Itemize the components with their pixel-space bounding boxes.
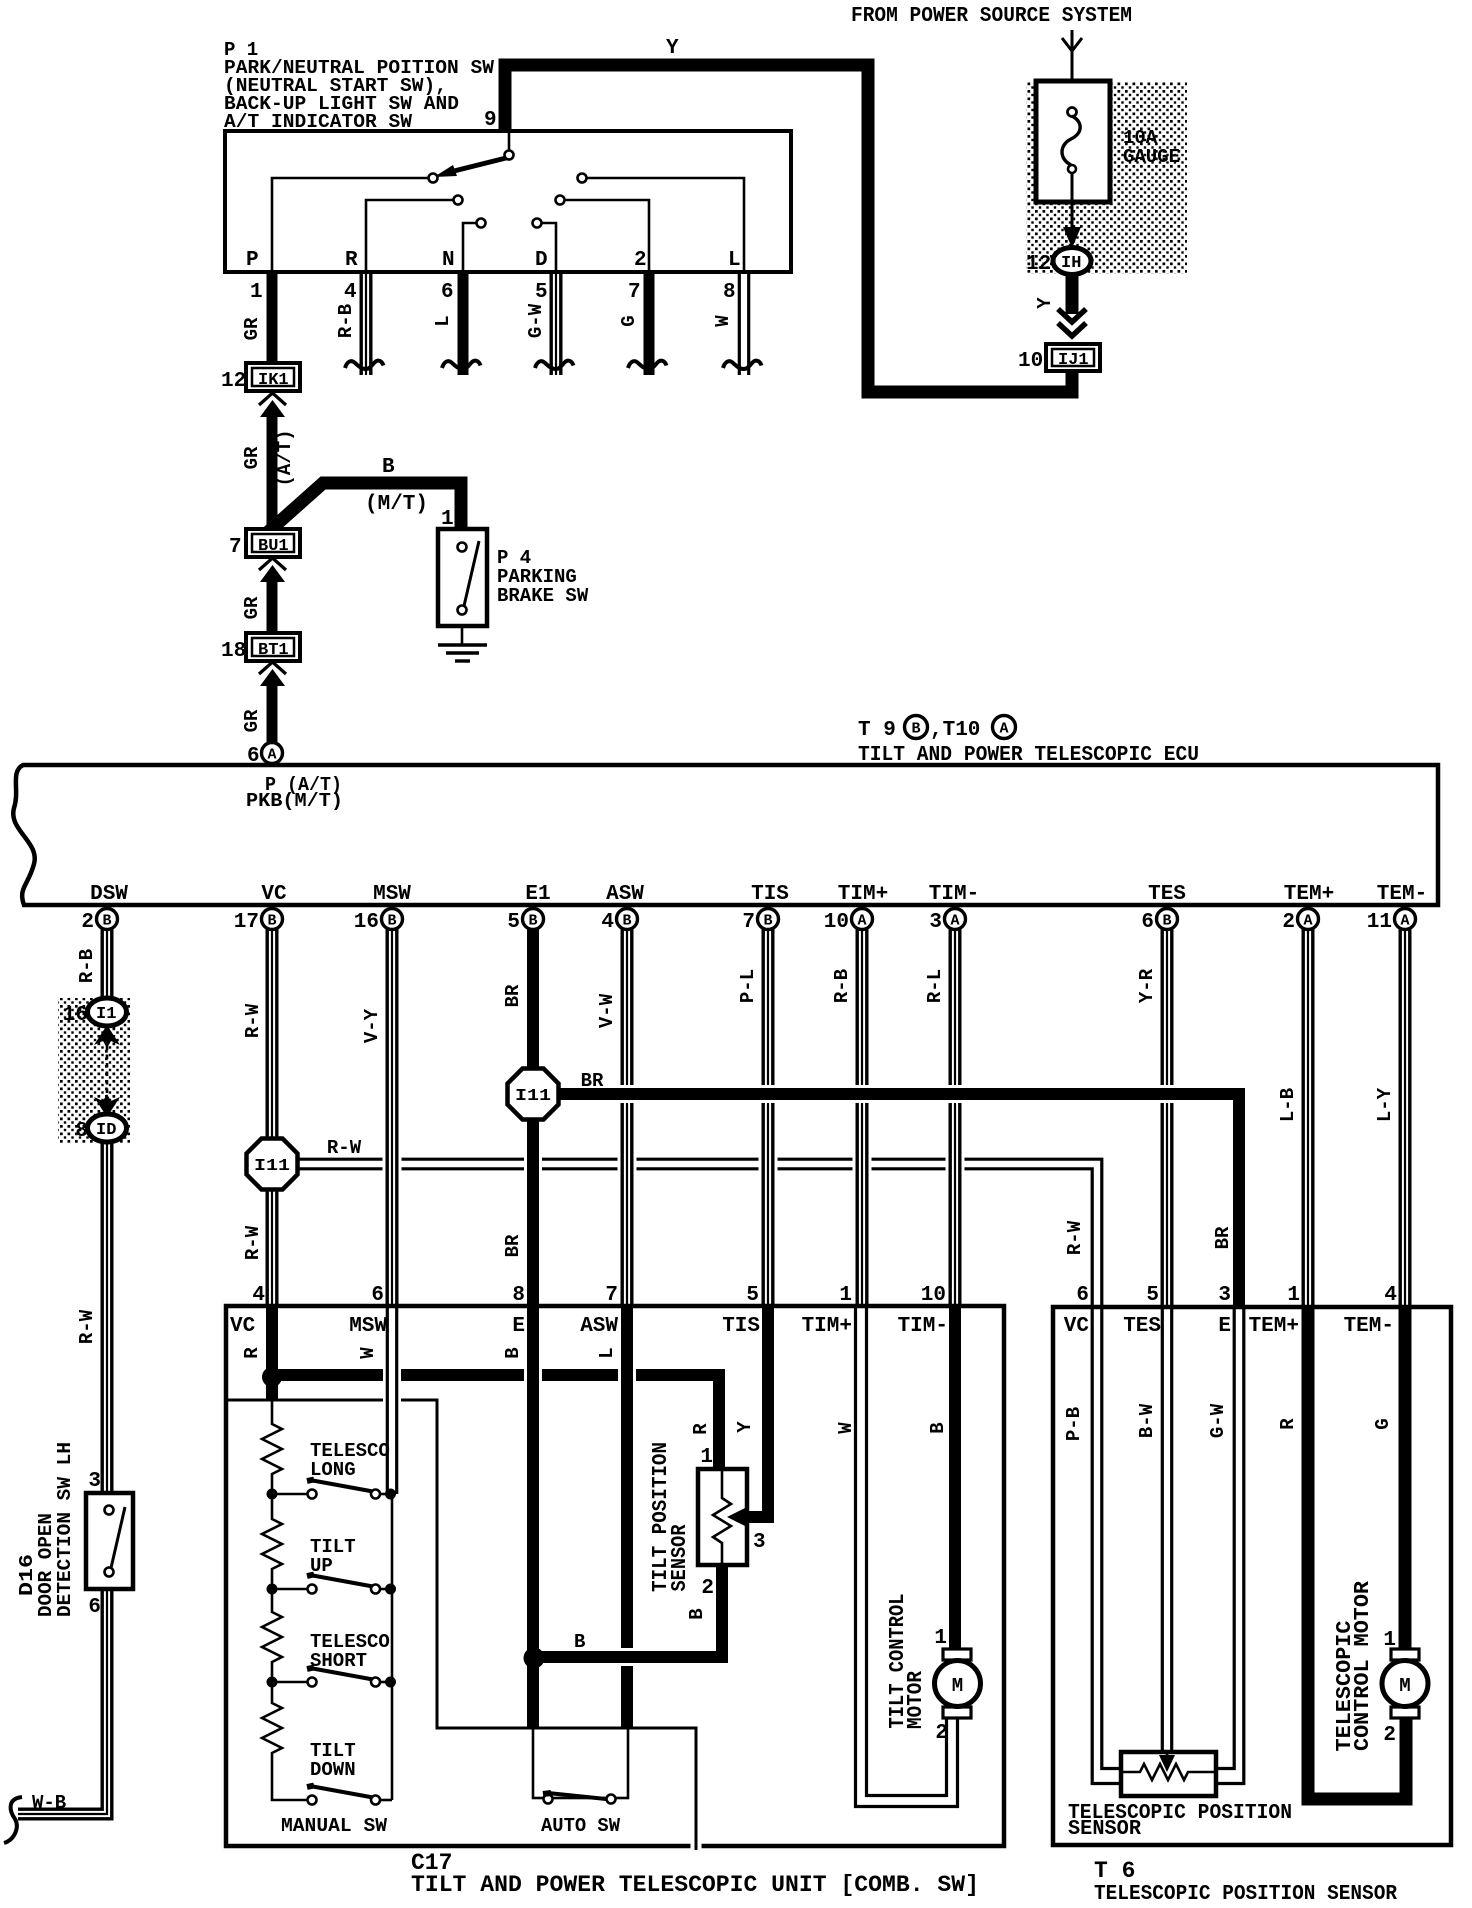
wire GR IK1 to BU1 [267,413,278,529]
P1 internal wiring [272,133,744,270]
connector ID (pin 8) [88,1114,127,1142]
svg-text:BR: BR [1212,1226,1234,1249]
harness break curl [4,1797,22,1843]
svg-text:TEM+: TEM+ [1284,883,1334,906]
svg-text:R: R [345,249,358,272]
P1 box [225,131,791,272]
svg-text:4: 4 [252,1284,265,1307]
svg-text:3: 3 [929,911,942,934]
svg-text:6: 6 [1076,1284,1089,1307]
arrow chevron under BU1 [259,558,286,570]
wire ASW V-W vertical [618,1145,637,1183]
ECU pin letters [102,913,1409,930]
svg-text:5: 5 [746,1284,759,1307]
svg-text:TIM-: TIM- [898,1315,948,1338]
wire E1 BR vertical [524,1145,542,1183]
svg-text:E: E [1218,1315,1231,1338]
wire B (E) vertical [524,1366,542,1384]
svg-text:6: 6 [1141,911,1154,934]
svg-text:B: B [686,1608,708,1619]
wire VC R-W vertical lower [267,1188,277,1306]
wire Y thick from IJ1 down, left, joining pin 9 feed [868,371,1072,392]
svg-text:G: G [618,315,640,326]
svg-text:3: 3 [88,1470,101,1493]
svg-text:10: 10 [921,1284,946,1307]
wire R (VC) inside C17 with junction to tilt position sensor pin 1 [272,1375,719,1469]
ECU box (torn left edge) [13,765,1438,905]
svg-text:R-B: R-B [76,949,98,983]
partition crossing slit [691,1840,702,1850]
svg-text:R: R [241,1347,263,1359]
svg-text:GR: GR [241,317,263,340]
svg-text:TIS: TIS [751,883,789,906]
T6 pin numbers [1076,1284,1397,1307]
svg-text:16: 16 [354,911,379,934]
wire GR BT1 to ECU pin 6 [267,682,278,742]
wire R-B pin4 (triple) [361,272,371,375]
ECU pin names [90,883,1427,906]
svg-text:6: 6 [441,281,454,304]
svg-text:I11: I11 [515,1087,551,1106]
ECU bottom pin circles [97,909,1416,930]
wire Y thick riser [505,65,875,392]
wire R (TEM+) thick loop to telescopic control motor pin 2 [1308,1306,1406,1799]
svg-text:B: B [387,913,396,930]
wire L pin6 [458,272,469,375]
resistor TILT UP ladder segment [262,1494,282,1589]
wire B-W (TES) double to sensor wiper [1162,1306,1171,1753]
svg-text:1: 1 [839,1284,852,1307]
svg-text:1: 1 [1383,1629,1396,1652]
svg-text:MSW: MSW [373,883,411,906]
wire W (MSW) hollow into switch bus [383,1310,401,1490]
motor M TELESCOPIC CONTROL MOTOR [1382,1649,1428,1718]
wire TES Y-R vertical [1162,929,1172,1306]
svg-text:SENSOR: SENSOR [669,1524,692,1591]
component TILT POSITION SENSOR (potentiometer) [698,1469,747,1565]
svg-text:GR: GR [241,446,263,469]
svg-text:BRAKE SW: BRAKE SW [497,585,589,607]
junction dot B [524,1648,545,1669]
svg-text:5: 5 [507,911,520,934]
component TELESCOPIC POSITION SENSOR (potentiometer) [1121,1752,1216,1796]
svg-text:1: 1 [934,1627,947,1650]
svg-text:TIM-: TIM- [929,883,979,906]
wire VC R-W vertical upper [267,929,277,1141]
svg-text:R: R [690,1423,712,1435]
resistor TILT DOWN ladder segment [262,1682,307,1800]
svg-text:R-W: R-W [242,1003,264,1038]
svg-text:M: M [952,1675,963,1697]
svg-text:L: L [432,315,454,326]
connector I11 (octagon, VC line) [247,1139,298,1190]
svg-text:T 6: T 6 [1094,1858,1135,1884]
svg-text:TIM+: TIM+ [802,1315,852,1338]
svg-text:6: 6 [247,745,260,768]
wire W pin8 (hollow) [739,272,748,375]
svg-text:MSW: MSW [349,1315,387,1338]
svg-text:FROM POWER SOURCE SYSTEM: FROM POWER SOURCE SYSTEM [851,5,1132,28]
svg-text:6: 6 [371,1284,384,1307]
wire R-W (hollow) from I11 to T6 VC [295,1159,1102,1306]
wire DSW R-B vertical [102,929,112,1000]
svg-text:L-Y: L-Y [1374,1087,1396,1122]
svg-text:B: B [528,913,537,930]
wire B (M/T) branch to parking brake [268,483,461,532]
connector I11 (octagon, BR line) [508,1069,559,1120]
svg-text:W: W [357,1347,379,1359]
svg-text:BR: BR [502,1234,524,1257]
connector IJ1 (pin 10) [1018,344,1100,373]
svg-text:B-W: B-W [1136,1403,1158,1438]
svg-text:2: 2 [1383,1724,1396,1747]
svg-text:Y-R: Y-R [1136,968,1158,1003]
svg-text:(A/T): (A/T) [274,429,296,486]
arrow into connector IH [1063,227,1081,248]
svg-text:8: 8 [512,1284,525,1307]
wire W (TIM+) hollow loop to tilt control motor pin 2 [856,1306,958,1807]
svg-text:UP: UP [310,1555,333,1577]
svg-text:I11: I11 [254,1157,290,1176]
svg-text:4: 4 [601,911,614,934]
wire B (TIM-) to tilt control motor pin 1 [949,1306,961,1652]
arrow chevron under IK1 [259,393,286,405]
C17 pin numbers [252,1284,946,1307]
svg-text:BR: BR [502,984,524,1007]
svg-text:PKB(M/T): PKB(M/T) [246,790,343,812]
svg-text:G-W: G-W [1207,1403,1229,1438]
svg-text:AUTO SW: AUTO SW [541,1815,621,1837]
manual switch bus [391,1494,394,1800]
svg-text:7: 7 [605,1284,618,1307]
P1 contact circles [429,174,587,228]
wire TIM+ R-B vertical [853,1145,872,1183]
svg-text:VC: VC [230,1315,256,1338]
svg-text:A: A [268,747,277,764]
svg-text:A: A [1400,913,1409,930]
svg-text:DOWN: DOWN [310,1759,356,1781]
svg-text:Y: Y [1034,297,1056,309]
svg-text:D: D [535,249,548,272]
svg-text:R-L: R-L [924,969,946,1003]
svg-text:3: 3 [1218,1284,1231,1307]
wire TEM- L-Y vertical [1400,929,1410,1306]
wire TIM- R-L vertical [946,1145,965,1183]
svg-text:VC: VC [261,883,287,906]
svg-text:LONG: LONG [310,1459,356,1481]
switch TILT UP [267,1575,397,1595]
ground symbol [438,626,487,661]
svg-text:BT1: BT1 [258,641,289,660]
svg-text:SENSOR: SENSOR [1068,1818,1141,1841]
connector 1H (pin 12) [1053,248,1091,275]
switch TELESCO SHORT [267,1668,397,1688]
wire from power source into fuse [1062,30,1082,110]
svg-text:ID: ID [96,1121,116,1140]
switch P4 PARKING BRAKE SW [438,529,487,626]
resistor TELESCO SHORT ladder segment [262,1589,282,1682]
svg-text:B: B [927,1422,949,1433]
P1 selector blade with arrow [505,151,514,160]
wire TIS P-L vertical [759,1145,778,1183]
svg-text:W-B: W-B [32,1792,66,1814]
wire TEM+ L-B vertical [1303,929,1313,1306]
svg-text:6: 6 [88,1596,101,1619]
svg-text:B: B [102,913,111,930]
svg-text:4: 4 [1384,1284,1397,1307]
switch D16 DOOR OPEN DETECTION SW LH [86,1493,133,1589]
wire L (ASW) vertical [618,1366,636,1384]
svg-text:N: N [442,249,455,272]
svg-text:4: 4 [344,281,357,304]
svg-text:,T10: ,T10 [930,719,980,742]
wire R-W to door switch [102,1142,112,1491]
svg-text:R-W: R-W [242,1225,264,1260]
connector BU1 (pin 7) [229,529,300,559]
svg-text:5: 5 [535,281,548,304]
svg-text:P: P [246,249,259,272]
arrow double chevron into IJ1 [1058,309,1086,336]
svg-text:W: W [835,1422,857,1434]
svg-text:R-B: R-B [335,304,357,338]
svg-text:TEM-: TEM- [1344,1315,1394,1338]
svg-text:10: 10 [1018,350,1043,373]
svg-text:MANUAL SW: MANUAL SW [281,1815,388,1837]
svg-text:TES: TES [1123,1315,1161,1338]
wire GR pin1 [267,272,278,364]
enclosure partition (manual/auto sw) [227,1400,696,1844]
svg-text:GR: GR [241,709,263,732]
wire MSW V-Y vertical [383,1145,402,1183]
shading region DSW connectors [58,998,130,1143]
svg-text:L: L [596,1347,618,1358]
shading region 10A GAUGE [1026,82,1187,274]
svg-text:BR: BR [581,1070,604,1092]
svg-text:10: 10 [824,911,849,934]
svg-text:9: 9 [484,109,497,132]
svg-text:12: 12 [1026,253,1051,276]
arrow chevron under BT1 [259,662,286,674]
svg-text:A: A [1303,913,1312,930]
svg-text:TILT AND POWER TELESCOPIC UNIT: TILT AND POWER TELESCOPIC UNIT [COMB. SW… [411,1872,979,1898]
svg-text:1: 1 [1287,1284,1300,1307]
ECU pin numbers [81,911,1392,934]
svg-text:E: E [512,1315,525,1338]
wire G-W pin5 (triple) [551,272,561,375]
svg-text:B: B [912,721,921,738]
svg-text:M: M [1399,1675,1410,1697]
svg-text:DETECTION SW LH: DETECTION SW LH [54,1442,76,1617]
svg-text:BU1: BU1 [258,537,289,556]
svg-text:TES: TES [1148,883,1186,906]
svg-text:R-B: R-B [831,969,853,1003]
svg-text:7: 7 [628,281,641,304]
svg-text:G-W: G-W [525,303,547,338]
svg-text:W: W [712,315,734,327]
svg-text:17: 17 [234,911,259,934]
svg-text:TIS: TIS [722,1315,760,1338]
svg-text:GAUGE: GAUGE [1123,146,1180,168]
svg-text:16: 16 [63,1004,88,1027]
svg-text:R-W: R-W [327,1137,362,1159]
svg-text:IK1: IK1 [258,371,289,390]
svg-text:E1: E1 [525,883,550,906]
svg-text:7: 7 [229,536,242,559]
wire BR (thick) from I11 to T6 E [565,1094,1239,1300]
svg-text:2: 2 [701,1577,714,1600]
svg-text:G: G [1372,1418,1394,1429]
svg-text:IJ1: IJ1 [1058,351,1089,370]
svg-text:B: B [574,1631,585,1653]
svg-text:2: 2 [935,1722,948,1745]
svg-text:B: B [1162,913,1171,930]
svg-text:DSW: DSW [90,883,128,906]
wire W-B from door switch to body harness [18,1589,112,1819]
svg-text:L: L [728,249,741,272]
svg-text:3: 3 [753,1531,766,1554]
svg-text:2: 2 [1282,911,1295,934]
switch AUTO SW [533,1728,628,1798]
svg-text:A: A [857,913,866,930]
svg-text:(M/T): (M/T) [365,493,428,516]
wire P-B (VC) hollow to telescopic position sensor [1092,1306,1122,1784]
svg-text:VC: VC [1064,1315,1090,1338]
pigtail stubs (to other circuits) [345,361,762,369]
svg-text:5: 5 [1146,1284,1159,1307]
svg-text:SHORT: SHORT [310,1650,367,1672]
svg-text:R-W: R-W [1064,1220,1086,1255]
wire B from E junction to tilt position sensor pin 2 [549,1563,722,1657]
wire G (TEM-) thick to telescopic control motor pin 1 [1399,1306,1412,1652]
svg-text:TEM-: TEM- [1377,883,1427,906]
wire GR BU1 to BT1 [267,578,278,633]
component box T6 [1053,1307,1451,1845]
svg-text:V-Y: V-Y [361,1008,383,1043]
svg-text:B: B [502,1347,524,1358]
svg-text:CONTROL MOTOR: CONTROL MOTOR [1352,1581,1375,1751]
ECU pin 6 A (top) [262,743,283,764]
junction dot VC [262,1367,282,1387]
wire Y (TIS) to sensor wiper [741,1306,768,1517]
svg-text:2: 2 [81,911,94,934]
svg-text:T 9: T 9 [858,719,896,742]
motor M TILT CONTROL MOTOR [935,1649,981,1718]
resistor ladder (manual sw) [262,1400,282,1494]
svg-text:L-B: L-B [1277,1088,1299,1122]
switch TELESCO LONG [267,1480,397,1500]
svg-text:12: 12 [221,370,246,393]
svg-text:P-B: P-B [1063,1407,1085,1441]
svg-text:7: 7 [742,911,755,934]
connector IK1 (pin 12) [221,363,300,393]
svg-text:R: R [1277,1418,1299,1430]
svg-text:IH: IH [1061,254,1081,273]
svg-text:MOTOR: MOTOR [905,1671,928,1729]
svg-text:V-W: V-W [596,993,618,1028]
connector I1 (pin 16) [88,998,127,1026]
svg-text:ASW: ASW [606,883,644,906]
fuse F 10A GAUGE [1036,81,1110,228]
svg-text:1: 1 [250,281,263,304]
arrow pair between connectors [94,1025,120,1048]
wire Y from IH to IJ1 [1066,274,1079,314]
svg-text:8: 8 [723,281,736,304]
svg-text:TIM+: TIM+ [838,883,888,906]
svg-text:TEM+: TEM+ [1249,1315,1299,1338]
component box C17 [226,1306,1004,1846]
svg-text:B: B [267,913,276,930]
svg-text:R-W: R-W [76,1309,98,1344]
wire G pin7 [644,272,655,375]
svg-text:B: B [763,913,772,930]
svg-text:TELESCOPIC POSITION SENSOR: TELESCOPIC POSITION SENSOR [1094,1883,1397,1906]
svg-text:Y: Y [734,1421,756,1433]
svg-text:18: 18 [221,640,246,663]
svg-text:2: 2 [634,249,647,272]
svg-text:1: 1 [700,1446,713,1469]
svg-text:11: 11 [1367,911,1392,934]
connector BT1 (pin 18) [221,633,300,663]
svg-text:8: 8 [75,1120,88,1143]
svg-text:B: B [382,456,395,479]
svg-text:P-L: P-L [737,969,759,1003]
svg-text:A: A [950,913,959,930]
svg-text:B: B [622,913,631,930]
wire G-W (E) hollow to sensor right end [1217,1306,1244,1784]
svg-text:I1: I1 [96,1005,116,1024]
svg-text:A: A [1000,721,1009,738]
svg-text:Y: Y [666,37,679,60]
switch TILT DOWN [307,1786,392,1805]
svg-text:ASW: ASW [580,1315,618,1338]
svg-text:GR: GR [241,596,263,619]
